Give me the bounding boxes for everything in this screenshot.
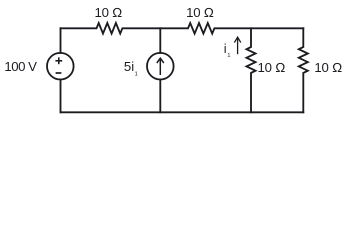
svg-text:10 Ω: 10 Ω — [314, 60, 342, 75]
wire left branch bottom — [60, 80, 62, 113]
svg-text:10 Ω: 10 Ω — [186, 5, 214, 20]
svg-text:10 Ω: 10 Ω — [258, 60, 286, 75]
svg-text:1: 1 — [135, 72, 138, 78]
resistor R4 vertical with wires — [299, 28, 308, 112]
voltage source plus sign — [55, 57, 62, 64]
wire top with resistor R1 and R2 zigzags — [61, 23, 304, 34]
svg-text:100 V: 100 V — [4, 59, 37, 74]
dependent current source U1 circle — [147, 53, 174, 80]
wire dep-source branch bottom — [159, 80, 161, 113]
svg-text:1: 1 — [227, 53, 230, 59]
svg-text:5i: 5i — [124, 59, 134, 74]
wire dep-source branch top — [159, 28, 161, 53]
svg-text:10 Ω: 10 Ω — [94, 5, 122, 20]
voltage source V1 circle — [47, 53, 74, 80]
wire left branch top — [60, 28, 62, 53]
current arrow i1 — [234, 37, 240, 54]
voltage source minus sign — [56, 72, 62, 74]
resistor R3 vertical with wires — [247, 28, 256, 112]
dependent source arrow up — [157, 58, 164, 75]
svg-text:i: i — [224, 41, 227, 56]
wire bottom — [61, 111, 304, 113]
